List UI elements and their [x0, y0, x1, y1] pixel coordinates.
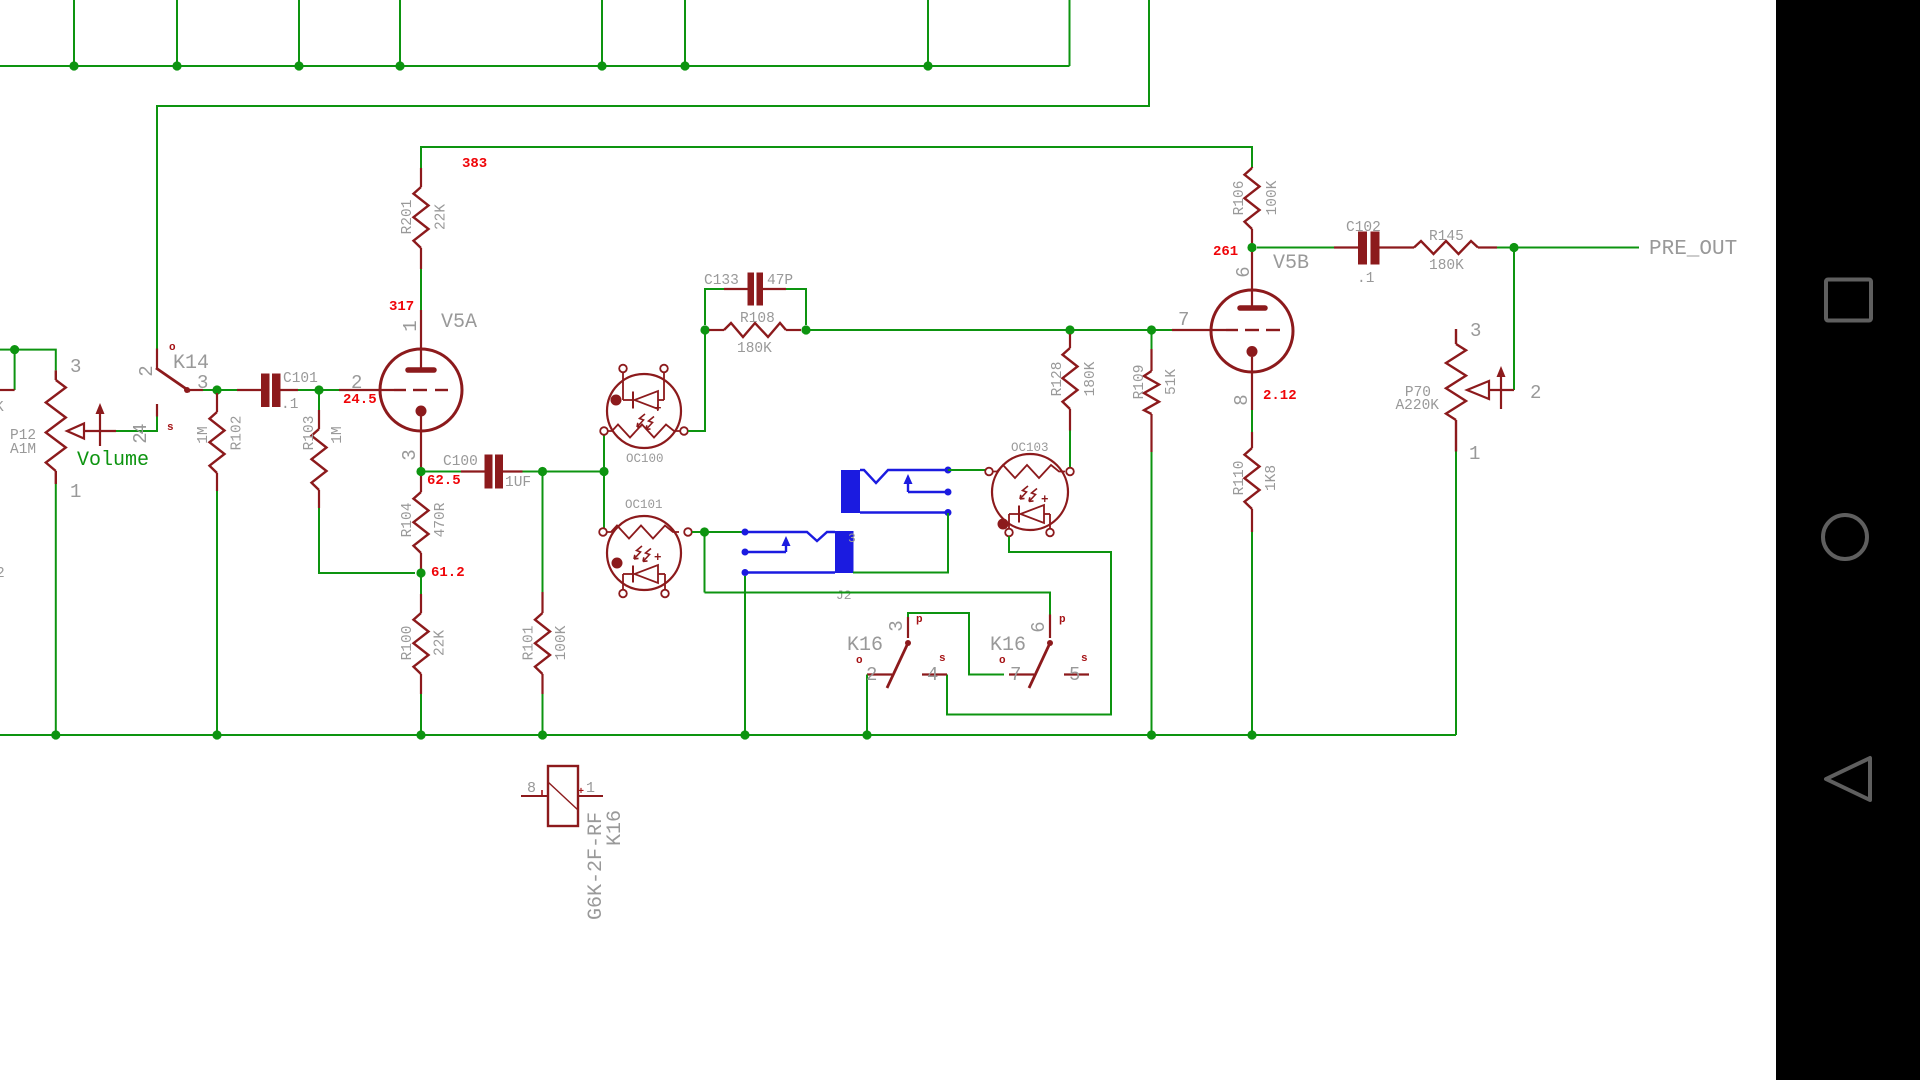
node top bus junction 5 — [597, 61, 606, 70]
svg-text:C101: C101 — [283, 371, 318, 387]
wire top bus stub 4 — [399, 0, 401, 66]
optocoupler OC101 — [599, 516, 692, 597]
svg-text:R145: R145 — [1429, 229, 1464, 245]
svg-text:R201: R201 — [400, 200, 416, 235]
node top bus junction 3 — [294, 61, 303, 70]
tube V5B — [1172, 252, 1293, 410]
switch K16b pin5 stub — [1064, 673, 1089, 675]
switch K14 pin 4 stub — [156, 404, 158, 417]
svg-text:3: 3 — [886, 620, 908, 631]
svg-text:5: 5 — [1069, 664, 1080, 686]
svg-text:180K: 180K — [1429, 258, 1464, 274]
svg-text:1: 1 — [1469, 443, 1480, 465]
svg-text:7: 7 — [1010, 664, 1021, 686]
nav bar background — [1776, 0, 1920, 1080]
node V5A grid junction — [314, 385, 323, 394]
svg-text:3: 3 — [848, 531, 856, 546]
resistor R104 470R — [420, 476, 422, 492]
wire top bus stub 2 — [176, 0, 178, 66]
node ground junction 3 — [416, 730, 425, 739]
relay K16 G6K-2F-RF coil — [548, 766, 578, 826]
switch K16b pivot dot — [1047, 640, 1053, 646]
node R108 right junction — [801, 325, 810, 334]
svg-text:51K: 51K — [1164, 369, 1180, 395]
svg-text:C102: C102 — [1346, 220, 1381, 236]
wire J3 sleeve down and left to J2 body — [853, 513, 948, 573]
node top bus junction 7 — [923, 61, 932, 70]
node R108 left junction — [700, 325, 709, 334]
svg-text:383: 383 — [462, 156, 487, 172]
svg-text:R106: R106 — [1232, 181, 1248, 216]
switch K16a pivot dot — [905, 640, 911, 646]
node C101 left junction — [212, 385, 221, 394]
node top bus junction 1 — [69, 61, 78, 70]
wire J2 sleeve to ground bus — [744, 576, 746, 735]
switch K16b pin7 stub — [1009, 673, 1034, 675]
wire top bus stub 7 — [927, 0, 929, 66]
wire R110 to ground bus — [1251, 532, 1253, 735]
node OC column junction — [599, 467, 608, 476]
svg-text:R128: R128 — [1050, 362, 1066, 397]
connector J3 jack — [860, 470, 948, 513]
svg-text:4: 4 — [927, 664, 938, 686]
wire K14 to C101 — [203, 389, 237, 391]
svg-text:R110: R110 — [1232, 461, 1248, 496]
wire P12 wiper to K14 pin4 — [116, 417, 157, 432]
node R109 top junction — [1147, 325, 1156, 334]
relay K16 pin 8 stub — [521, 795, 548, 797]
node top bus junction 4 — [395, 61, 404, 70]
svg-text:o: o — [999, 655, 1006, 667]
svg-text:1: 1 — [586, 780, 595, 797]
svg-text:6: 6 — [1233, 266, 1255, 277]
svg-text:C133: C133 — [704, 273, 739, 289]
wire top supply bus — [0, 65, 1070, 67]
svg-text:8: 8 — [1231, 394, 1253, 405]
wire J2 net to K16 pin6 — [705, 593, 1051, 615]
wire cathode to C100 — [421, 471, 461, 473]
node R101 top junction — [538, 467, 547, 476]
optocoupler OC100 — [600, 365, 688, 448]
wire top bus stub 5 — [601, 0, 603, 66]
connector J3 body — [841, 470, 860, 513]
resistor R100 22K — [420, 594, 422, 613]
svg-text:2: 2 — [136, 365, 158, 376]
svg-text:100K: 100K — [1265, 180, 1281, 215]
wire R109 top — [1151, 330, 1153, 349]
svg-text:R108: R108 — [740, 311, 775, 327]
svg-text:61.2: 61.2 — [431, 565, 465, 581]
svg-text:3: 3 — [1470, 320, 1481, 342]
svg-text:K16: K16 — [847, 634, 883, 657]
switch K14 pivot dot — [184, 387, 190, 393]
node J2 tip junction — [700, 527, 709, 536]
svg-text:8: 8 — [527, 780, 536, 797]
node V5A cathode junction — [416, 467, 425, 476]
capacitor C133 47P — [705, 289, 724, 325]
svg-text:.1: .1 — [281, 397, 298, 413]
svg-text:J2: J2 — [836, 588, 852, 603]
switch K16a pin4 stub — [922, 673, 947, 675]
svg-text:22K: 22K — [434, 204, 450, 230]
wire 61.2 node to R100 — [420, 576, 422, 594]
wire J3 tip to OC103 left pin — [948, 469, 985, 471]
svg-text:p: p — [1059, 614, 1066, 626]
wire R201 to V5A plate — [420, 269, 422, 310]
wire R103 to cathode node — [319, 508, 415, 573]
capacitor C102 .1 — [1334, 246, 1358, 248]
svg-text:A1M: A1M — [10, 442, 36, 458]
wire P70 pin1 down to ground bus — [1455, 452, 1457, 736]
wire K16a pin2 to ground bus — [866, 675, 868, 736]
svg-text:OC100: OC100 — [626, 452, 664, 466]
svg-text:K16: K16 — [604, 810, 627, 846]
wire R145 to PRE_OUT node — [1497, 247, 1514, 249]
wire R101 to ground bus — [542, 694, 544, 735]
node ground junction 1 — [51, 730, 60, 739]
tube V5A — [339, 310, 462, 472]
svg-text:R109: R109 — [1132, 365, 1148, 400]
resistor R201 22K — [420, 168, 422, 187]
svg-text:+: + — [1041, 493, 1049, 507]
svg-text:V5A: V5A — [441, 311, 477, 334]
potentiometer P12 A1M — [55, 370, 57, 380]
switch K14 pin 3 stub — [187, 389, 203, 391]
potentiometer P70 A220K — [1455, 329, 1457, 344]
wire P12 pin1 down to ground bus — [55, 484, 57, 735]
svg-text:180K: 180K — [737, 341, 772, 357]
resistor R102 1M — [216, 393, 218, 412]
wire top bus stub 1 — [73, 0, 75, 66]
wire top bus stub 6 — [684, 0, 686, 66]
nav icon square — [1826, 280, 1871, 321]
svg-text:+: + — [578, 787, 584, 798]
svg-text:p: p — [916, 614, 923, 626]
switch K16a pin3 lead — [908, 613, 1004, 675]
switch K16b pin6 lead — [1049, 615, 1051, 639]
wire PRE_OUT node down to P70 wiper — [1513, 248, 1515, 391]
wire ground bus — [0, 734, 1456, 736]
connector J2 jack — [745, 532, 835, 573]
wire R109 to ground bus — [1151, 452, 1153, 735]
svg-text:2: 2 — [1530, 382, 1541, 404]
node ground junction 5 — [740, 730, 749, 739]
wire grid node down to R103 — [318, 390, 320, 410]
svg-text:1K8: 1K8 — [1264, 465, 1280, 491]
svg-text:62.5: 62.5 — [427, 473, 461, 489]
svg-text:s: s — [939, 653, 946, 665]
node ground junction 6 — [862, 730, 871, 739]
nav icon circle — [1823, 515, 1867, 559]
node 61.2 junction — [416, 568, 425, 577]
svg-text:2.12: 2.12 — [1263, 388, 1297, 404]
wire OC100 right pin to R108 node — [688, 334, 705, 431]
svg-text:1M: 1M — [330, 426, 346, 443]
resistor R110 1K8 — [1251, 432, 1253, 448]
svg-text:22K: 22K — [433, 630, 449, 656]
svg-text:s: s — [1081, 653, 1088, 665]
switch K16a blade — [887, 643, 908, 688]
node ground junction 2 — [212, 730, 221, 739]
node 261 junction — [1247, 243, 1256, 252]
svg-text:1UF: 1UF — [505, 475, 531, 491]
svg-text:1M: 1M — [196, 426, 212, 443]
wire input to P12 pin3 — [15, 350, 56, 371]
optocoupler OC103 — [985, 454, 1074, 536]
wire J2 tip node down — [704, 532, 706, 593]
resistor R109 51K — [1150, 349, 1152, 371]
svg-text:2: 2 — [0, 566, 5, 582]
wire red pin line at left edge — [0, 389, 15, 391]
wire R100 to ground bus — [420, 694, 422, 735]
svg-text:OC101: OC101 — [625, 498, 663, 512]
node PRE_OUT junction — [1509, 243, 1518, 252]
switch K16a pin2 stub — [867, 673, 892, 675]
resistor R103 1M — [318, 410, 320, 429]
svg-text:7: 7 — [1178, 309, 1189, 331]
wire 261 node to C102 — [1257, 247, 1334, 249]
wire B+ net y=147 to R201 and R106 — [421, 147, 1252, 168]
svg-text:261: 261 — [1213, 244, 1238, 260]
node ground junction 8 — [1247, 730, 1256, 739]
svg-text:4: 4 — [130, 423, 152, 434]
resistor R145 180K — [1414, 241, 1478, 254]
resistor R128 180K — [1069, 334, 1071, 348]
svg-text:+: + — [654, 402, 662, 416]
svg-text:A220K: A220K — [1395, 398, 1439, 414]
resistor R101 100K — [541, 592, 543, 613]
wire R108 to V5B grid line — [806, 329, 1172, 331]
wire input branch down — [14, 350, 16, 390]
svg-text:K16: K16 — [990, 634, 1026, 657]
nav icon triangle — [1826, 758, 1870, 800]
svg-text:K: K — [0, 400, 4, 416]
svg-text:1: 1 — [70, 481, 81, 503]
resistor R106 100K — [1251, 167, 1253, 168]
svg-text:Volume: Volume — [77, 449, 149, 472]
svg-text:2: 2 — [351, 372, 362, 394]
wire top bus stub 3 — [298, 0, 300, 66]
wire R102 to ground bus — [216, 491, 218, 735]
svg-text:6: 6 — [1028, 621, 1050, 632]
node top bus junction 2 — [172, 61, 181, 70]
svg-text:470R: 470R — [433, 502, 449, 537]
resistor R108 180K — [709, 329, 724, 331]
wire second horizontal net y=106 — [157, 0, 1149, 349]
wire R101 node down — [542, 472, 544, 593]
svg-text:317: 317 — [389, 299, 414, 315]
svg-text:PRE_OUT: PRE_OUT — [1649, 238, 1737, 261]
svg-text:100K: 100K — [554, 625, 570, 660]
svg-text:1: 1 — [400, 320, 422, 331]
capacitor C101 .1 — [237, 389, 261, 391]
svg-text:R102: R102 — [230, 416, 246, 451]
svg-text:24.5: 24.5 — [343, 392, 377, 408]
wire PRE_OUT stub — [1514, 247, 1639, 249]
svg-text:o: o — [169, 342, 176, 354]
svg-text:47P: 47P — [767, 273, 793, 289]
wire OC101 right pin to J2 junction — [692, 531, 745, 533]
node input junction — [10, 345, 19, 354]
svg-text:R104: R104 — [400, 503, 416, 538]
capacitor C100 1UF — [461, 470, 485, 472]
wire OC103 led to K16 pin4 — [947, 536, 1111, 714]
node R128 top junction — [1065, 325, 1074, 334]
switch K14 pin 2 lead — [156, 349, 158, 370]
relay K16 pin 1 stub — [578, 795, 603, 797]
switch K14 blade — [156, 368, 190, 392]
potentiometer P70 wiper arrow — [1467, 366, 1514, 409]
wire R101 node to OC100/OC101 column — [543, 471, 605, 473]
switch K16b blade — [1029, 643, 1050, 688]
svg-text:o: o — [856, 655, 863, 667]
node ground junction 7 — [1147, 730, 1156, 739]
svg-text:R101: R101 — [522, 626, 538, 661]
wire input from left edge — [0, 349, 15, 351]
svg-text:R100: R100 — [400, 626, 416, 661]
svg-text:OC103: OC103 — [1011, 441, 1049, 455]
wire V5B pin8 to R110 — [1251, 410, 1253, 432]
wire C101 to V5A grid — [298, 389, 339, 391]
wire C100 to R101 node — [523, 471, 543, 473]
svg-text:3: 3 — [70, 356, 81, 378]
svg-text:2: 2 — [866, 664, 877, 686]
potentiometer P12 wiper arrow — [67, 403, 116, 446]
svg-text:V5B: V5B — [1273, 252, 1309, 275]
svg-text:+: + — [654, 551, 662, 565]
node ground junction 4 — [538, 730, 547, 739]
svg-text:180K: 180K — [1083, 361, 1099, 396]
svg-text:.1: .1 — [1357, 271, 1374, 287]
wire OC junction down to OC101 left pin — [603, 472, 605, 529]
wire OC junction up to OC100 left pin — [603, 435, 605, 472]
svg-text:R103: R103 — [302, 416, 318, 451]
wire R128 to OC103 right pin — [1069, 431, 1071, 468]
svg-text:s: s — [167, 422, 174, 434]
connector J2 body — [835, 531, 854, 573]
svg-text:C100: C100 — [443, 454, 478, 470]
node top bus junction 6 — [680, 61, 689, 70]
wire top bus right corner up — [1069, 0, 1071, 66]
svg-text:3: 3 — [399, 449, 421, 460]
